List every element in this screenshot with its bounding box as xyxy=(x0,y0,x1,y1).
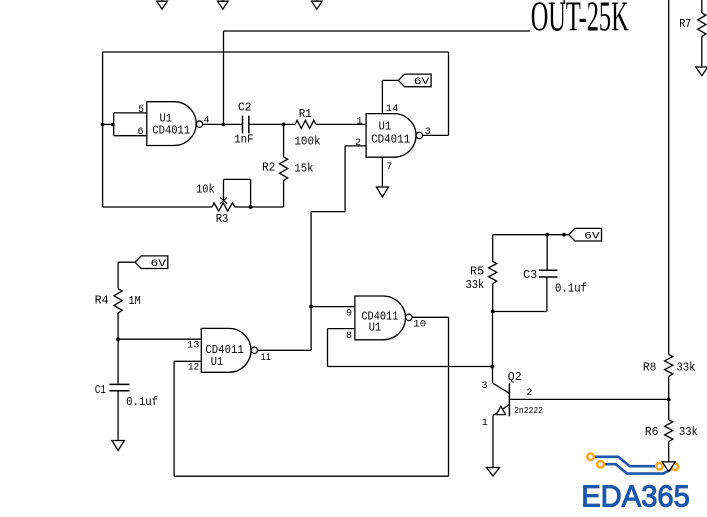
svg-text:CD4011: CD4011 xyxy=(371,134,410,147)
svg-text:U1: U1 xyxy=(211,356,224,369)
svg-text:C2: C2 xyxy=(238,102,252,115)
svg-text:R8: R8 xyxy=(643,361,657,374)
svg-text:EDA365: EDA365 xyxy=(581,479,690,514)
svg-text:2: 2 xyxy=(526,388,532,399)
svg-text:12: 12 xyxy=(188,363,199,374)
svg-text:14: 14 xyxy=(386,104,399,115)
svg-text:100k: 100k xyxy=(294,135,320,148)
svg-text:2: 2 xyxy=(355,138,361,149)
svg-text:R4: R4 xyxy=(95,295,109,308)
svg-text:10k: 10k xyxy=(196,184,215,197)
svg-text:1M: 1M xyxy=(129,295,141,308)
svg-text:U1: U1 xyxy=(379,120,392,133)
svg-text:C3: C3 xyxy=(523,269,537,282)
svg-text:9: 9 xyxy=(346,309,352,320)
svg-text:0.1uf: 0.1uf xyxy=(555,282,587,295)
svg-text:R6: R6 xyxy=(645,426,659,439)
svg-text:3: 3 xyxy=(482,381,488,392)
svg-text:15k: 15k xyxy=(294,163,313,176)
svg-text:1: 1 xyxy=(482,418,488,429)
svg-text:C1: C1 xyxy=(95,384,106,397)
svg-text:CD4011: CD4011 xyxy=(152,125,190,138)
svg-text:U1: U1 xyxy=(160,112,173,125)
svg-text:3: 3 xyxy=(425,127,431,138)
svg-text:R5: R5 xyxy=(470,266,484,279)
svg-text:13: 13 xyxy=(187,341,199,352)
svg-text:33k: 33k xyxy=(677,361,696,374)
svg-text:33k: 33k xyxy=(466,279,485,292)
svg-text:6V: 6V xyxy=(414,77,430,88)
svg-text:2n2222: 2n2222 xyxy=(514,406,543,416)
svg-text:R2: R2 xyxy=(262,161,275,174)
svg-text:0.1uf: 0.1uf xyxy=(126,396,158,409)
svg-text:1nF: 1nF xyxy=(234,133,254,146)
svg-text:1: 1 xyxy=(356,117,362,128)
svg-text:11: 11 xyxy=(261,353,271,364)
svg-text:R3: R3 xyxy=(216,213,229,226)
svg-text:U1: U1 xyxy=(369,322,382,335)
svg-text:5: 5 xyxy=(138,105,144,116)
svg-text:8: 8 xyxy=(346,331,352,342)
svg-text:CD4011: CD4011 xyxy=(205,344,243,357)
svg-text:6V: 6V xyxy=(584,231,600,242)
svg-text:10: 10 xyxy=(413,320,426,331)
svg-text:R7: R7 xyxy=(679,18,691,31)
svg-text:7: 7 xyxy=(386,162,392,173)
svg-text:OUT-25K: OUT-25K xyxy=(531,0,629,41)
svg-text:6: 6 xyxy=(137,127,143,138)
svg-text:R1: R1 xyxy=(299,108,312,121)
svg-text:6V: 6V xyxy=(151,259,167,270)
svg-text:Q2: Q2 xyxy=(508,371,522,384)
svg-text:33k: 33k xyxy=(679,426,698,439)
